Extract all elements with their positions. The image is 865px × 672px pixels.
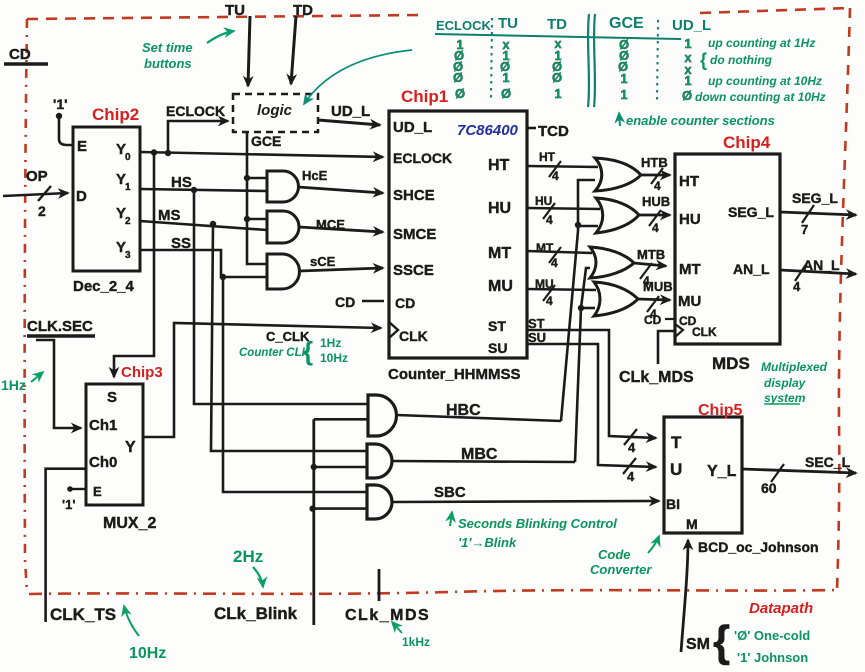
- svg-text:1: 1: [620, 71, 627, 86]
- svg-text:SMCE: SMCE: [393, 226, 436, 243]
- svg-text:3: 3: [125, 250, 131, 261]
- svg-text:1Hz: 1Hz: [1, 377, 26, 393]
- svg-text:HUB: HUB: [642, 194, 670, 209]
- svg-text:4: 4: [652, 221, 659, 235]
- svg-text:CLK: CLK: [692, 325, 717, 339]
- junction MUB input: [578, 305, 584, 311]
- svg-text:2: 2: [38, 203, 46, 219]
- wire Y0 drop to MUX S: [114, 152, 154, 377]
- svg-text:display: display: [764, 376, 807, 390]
- svg-text:Converter: Converter: [590, 562, 652, 577]
- svg-text:MT: MT: [488, 245, 511, 262]
- svg-text:GCE: GCE: [251, 133, 281, 149]
- svg-text:ST: ST: [528, 316, 545, 331]
- svg-text:HT: HT: [488, 157, 510, 174]
- svg-text:1: 1: [684, 73, 691, 88]
- truth table column ECLOCK values: [453, 37, 465, 101]
- junction HUB input: [575, 222, 581, 228]
- wire MCE to Chip1 SMCE: [299, 227, 383, 232]
- multiplexer U-chip3 MUX_2: [86, 384, 143, 505]
- border left dash-dot: [25, 19, 27, 592]
- svg-text:Ch1: Ch1: [89, 417, 117, 434]
- svg-text:Chip5: Chip5: [698, 402, 743, 419]
- svg-text:GCE: GCE: [609, 15, 644, 32]
- wire SU to Chip5 U: [527, 344, 656, 467]
- svg-text:Seconds Blinking Control: Seconds Blinking Control: [458, 516, 617, 531]
- svg-text:Counter_HHMMSS: Counter_HHMMSS: [388, 366, 521, 383]
- svg-text:0: 0: [125, 152, 131, 163]
- svg-text:7: 7: [801, 222, 808, 237]
- svg-text:BCD_oc_Johnson: BCD_oc_Johnson: [698, 539, 819, 555]
- svg-text:MT: MT: [536, 241, 554, 255]
- svg-text:10Hz: 10Hz: [320, 351, 348, 365]
- note Seconds Blinking Control: [450, 512, 452, 526]
- wire SEG_L output: [780, 212, 856, 215]
- junction CLK_Blink to SBC: [309, 505, 315, 511]
- svg-text:MU: MU: [678, 293, 701, 310]
- svg-text:MUB: MUB: [643, 279, 673, 294]
- svg-text:CLK_TS: CLK_TS: [50, 605, 116, 624]
- svg-text:ECLOCK: ECLOCK: [436, 18, 492, 33]
- svg-text:HT: HT: [539, 150, 556, 164]
- and-gate MBC: [367, 444, 392, 478]
- svg-text:enable counter sections: enable counter sections: [626, 113, 775, 128]
- logic block dashed: [233, 94, 318, 132]
- svg-text:M: M: [686, 516, 698, 532]
- svg-text:Y_L: Y_L: [707, 463, 737, 480]
- and-gate SCE: [267, 254, 300, 289]
- svg-text:UD_L: UD_L: [331, 103, 370, 120]
- junction MS drop: [210, 221, 216, 227]
- pin CLK triangle chip1: [389, 322, 398, 338]
- svg-text:4: 4: [546, 294, 553, 308]
- wire SS drop to SBC gate: [223, 277, 367, 492]
- counter U-chip1 Counter_HHMMSS: [389, 111, 527, 358]
- svg-text:logic: logic: [257, 102, 293, 119]
- wire CD stub chip1: [362, 300, 384, 303]
- svg-text:CLK: CLK: [399, 328, 428, 344]
- svg-text:1Hz: 1Hz: [320, 336, 341, 350]
- svg-text:AN_L: AN_L: [733, 261, 770, 277]
- svg-text:SEG_L: SEG_L: [728, 204, 774, 220]
- svg-text:ECLOCK: ECLOCK: [166, 103, 225, 119]
- svg-text:HU: HU: [679, 211, 701, 228]
- svg-text:Ø: Ø: [455, 86, 465, 101]
- svg-text:E: E: [77, 138, 87, 155]
- bus slash OP 2: [38, 186, 51, 201]
- junction on Y0 for ECLOCK riser: [165, 150, 171, 156]
- svg-text:U: U: [670, 460, 682, 479]
- svg-text:HS: HS: [171, 174, 192, 191]
- svg-text:Ø: Ø: [501, 86, 511, 101]
- svg-text:up counting at 1Hz: up counting at 1Hz: [708, 36, 815, 50]
- svg-text:4: 4: [552, 169, 559, 183]
- svg-text:10Hz: 10Hz: [129, 645, 166, 662]
- arrow table to logic: [304, 50, 412, 104]
- svg-text:1: 1: [125, 182, 131, 193]
- pin CLK triangle chip4: [675, 324, 683, 337]
- svg-text:MTB: MTB: [637, 247, 665, 262]
- svg-text:S: S: [107, 389, 117, 406]
- svg-text:MU: MU: [488, 278, 513, 295]
- svg-text:CLk_MDS: CLk_MDS: [619, 369, 694, 386]
- svg-text:system: system: [764, 391, 806, 405]
- svg-text:1: 1: [554, 86, 561, 101]
- svg-text:4: 4: [546, 213, 553, 227]
- svg-text:TU: TU: [225, 2, 245, 19]
- wire MBC riser to MTB MUB gates: [575, 268, 590, 462]
- svg-text:HcE: HcE: [302, 168, 328, 183]
- and-gate HCE: [267, 171, 299, 202]
- svg-text:{: {: [303, 336, 313, 366]
- wire HU bus to HUB gate: [527, 208, 600, 209]
- svg-text:do nothing: do nothing: [710, 53, 773, 67]
- svg-text:MS: MS: [158, 207, 181, 224]
- svg-text:'1'→Blink: '1'→Blink: [458, 535, 517, 550]
- svg-text:4: 4: [654, 179, 661, 193]
- svg-text:CLk_Blink: CLk_Blink: [214, 604, 298, 623]
- junction SS drop: [220, 274, 226, 280]
- svg-text:BI: BI: [666, 496, 680, 512]
- wire CLK_Blink to SBC gate: [313, 507, 367, 510]
- wire MU bus to MUB gate: [527, 289, 596, 290]
- svg-text:Chip3: Chip3: [121, 364, 163, 381]
- wire SS (Y3) to SCE gate: [140, 250, 267, 277]
- node CLK_MDS bottom tick: [378, 569, 381, 601]
- wire SEC_L output: [742, 469, 856, 473]
- wire HBC output to riser: [397, 415, 562, 421]
- wire CLK_SEC to MUX Ch1: [36, 340, 81, 428]
- svg-text:4: 4: [628, 440, 636, 455]
- svg-text:SHCE: SHCE: [393, 187, 435, 204]
- wire HCE to Chip1 SHCE: [298, 187, 383, 193]
- svg-text:{: {: [700, 50, 707, 70]
- svg-text:4: 4: [551, 256, 558, 270]
- svg-text:7C86400: 7C86400: [457, 122, 519, 139]
- svg-text:SBC: SBC: [434, 484, 466, 501]
- wire CLK_MDS to chip4 clk: [658, 331, 675, 364]
- wire CLK_Blink to HBC gate: [314, 418, 368, 421]
- svg-text:Y: Y: [125, 439, 136, 456]
- svg-text:TU: TU: [498, 15, 518, 32]
- wire CD stub chip4: [665, 318, 674, 320]
- svg-text:Datapath: Datapath: [749, 600, 813, 617]
- svg-text:TCD: TCD: [538, 123, 569, 140]
- truth table column TU values: [500, 37, 511, 101]
- wire TU to logic: [248, 16, 250, 86]
- wire GCE stub to HCE gate: [247, 177, 267, 180]
- svg-text:CD: CD: [395, 295, 415, 311]
- svg-text:HT: HT: [679, 173, 699, 190]
- truth table column GCE values: [618, 37, 629, 102]
- svg-text:'Ø' One-cold: 'Ø' One-cold: [734, 628, 810, 643]
- svg-text:2Hz: 2Hz: [233, 547, 263, 566]
- svg-text:Multiplexed: Multiplexed: [761, 360, 828, 374]
- svg-text:Chip4: Chip4: [723, 133, 771, 152]
- svg-text:SEC_L: SEC_L: [805, 454, 851, 470]
- svg-text:Ø: Ø: [453, 70, 463, 85]
- svg-text:'1': '1': [53, 96, 67, 112]
- svg-text:HBC: HBC: [446, 402, 481, 419]
- svg-text:D: D: [76, 188, 87, 205]
- wire GCE stub to MCE gate: [247, 218, 267, 221]
- svg-text:MUX_2: MUX_2: [103, 515, 156, 532]
- svg-text:1kHz: 1kHz: [402, 635, 430, 649]
- wire Y0 to Chip1 ECLOCK: [140, 152, 383, 157]
- svg-text:4: 4: [793, 279, 801, 294]
- wire CLK_TS to MUX Ch0: [46, 469, 86, 622]
- or-gate HTB: [595, 158, 641, 191]
- svg-text:Code: Code: [598, 547, 631, 562]
- truth table double bar: [588, 14, 595, 107]
- wire '1' to MUX E: [70, 488, 86, 490]
- svg-text:down counting at 10Hz: down counting at 10Hz: [695, 90, 826, 104]
- svg-text:E: E: [93, 484, 102, 499]
- wire MBC output to riser: [392, 461, 575, 462]
- svg-text:CLK.SEC: CLK.SEC: [27, 318, 93, 335]
- svg-text:up counting at 10Hz: up counting at 10Hz: [708, 74, 822, 88]
- border top dashed: [27, 8, 850, 19]
- or-gate HUB: [596, 198, 639, 233]
- svg-text:MCE: MCE: [316, 217, 345, 232]
- svg-text:HU: HU: [535, 194, 552, 208]
- junction GCE to HCE: [244, 175, 250, 181]
- wire MT bus to MTB gate: [527, 251, 592, 253]
- junction HS drop: [191, 187, 197, 193]
- svg-text:1: 1: [684, 36, 691, 51]
- svg-text:CLk_MDS: CLk_MDS: [345, 607, 430, 624]
- wire HBC riser to HTB HUB gates: [561, 180, 595, 421]
- wire '1' to E: [59, 116, 73, 145]
- svg-text:SS: SS: [171, 235, 191, 252]
- svg-text:TD: TD: [547, 16, 567, 33]
- wire MTB to Chip4 MT: [634, 263, 666, 266]
- svg-text:CD: CD: [9, 46, 31, 63]
- svg-text:SM: SM: [686, 636, 710, 653]
- wire MS drop to MBC gate: [211, 224, 367, 451]
- wire CLK_Blink to MBC gate: [314, 466, 367, 469]
- svg-text:sCE: sCE: [310, 254, 336, 269]
- svg-text:SU: SU: [528, 330, 546, 345]
- svg-text:HTB: HTB: [641, 155, 668, 170]
- code converter U-chip5 BCD_oc_Johnson: [664, 417, 742, 533]
- svg-text:1: 1: [620, 87, 627, 102]
- svg-text:UD_L: UD_L: [393, 119, 432, 136]
- junction GCE to MCE: [244, 216, 250, 222]
- truth table dotted separator 1: [491, 18, 492, 102]
- svg-text:Set time: Set time: [142, 40, 193, 55]
- svg-text:CD: CD: [335, 294, 355, 310]
- truth table dotted separator 2: [657, 20, 658, 104]
- or-gate MTB: [590, 247, 634, 278]
- svg-text:MT: MT: [679, 261, 701, 278]
- svg-text:2: 2: [125, 216, 131, 227]
- truth table column UD_L values: [682, 36, 692, 103]
- wire HS drop to HBC gate: [194, 190, 368, 404]
- svg-text:MBC: MBC: [461, 446, 498, 463]
- svg-text:T: T: [671, 433, 682, 452]
- wire MUB to Chip4 MU: [638, 299, 670, 300]
- svg-text:AN_L: AN_L: [803, 257, 840, 273]
- wire GCE from logic down to SCE gate: [247, 132, 267, 264]
- and-gate HBC: [368, 395, 397, 436]
- wire AN_L output: [780, 270, 856, 274]
- border bottom dash-dot: [29, 590, 837, 594]
- svg-text:MDS: MDS: [712, 354, 750, 373]
- svg-text:OP: OP: [26, 168, 48, 185]
- junction on Y0 for MUX S drop: [151, 149, 157, 155]
- wire HT bus to HTB gate: [527, 166, 598, 167]
- svg-text:ST: ST: [488, 318, 506, 334]
- svg-text:'1': '1': [62, 497, 75, 512]
- svg-text:Chip2: Chip2: [92, 105, 139, 124]
- wire HS (Y1) to HCE gate: [140, 189, 267, 191]
- svg-text:1: 1: [502, 70, 509, 85]
- decoder U-chip2 Dec_2_4: [73, 127, 140, 271]
- note enable counter sections: [619, 113, 620, 126]
- wire MS (Y2) to MCE gate: [140, 221, 267, 230]
- svg-text:UD_L: UD_L: [672, 17, 711, 34]
- or-gate MUB: [594, 282, 638, 316]
- wire stub to MUB gate: [581, 307, 595, 310]
- svg-text:buttons: buttons: [144, 56, 192, 71]
- and-gate SBC: [367, 485, 392, 519]
- wire UD_L logic to Chip1: [318, 120, 380, 125]
- svg-text:Counter CLK: Counter CLK: [239, 347, 311, 359]
- display driver U-chip4 MDS: [675, 154, 780, 344]
- wire SBC output to Chip5 BI: [392, 501, 659, 502]
- wire ECLOCK riser to logic box: [168, 121, 228, 153]
- svg-text:CD: CD: [644, 313, 662, 327]
- wire OP to D: [3, 193, 68, 196]
- svg-text:60: 60: [761, 480, 777, 496]
- svg-text:SU: SU: [488, 340, 507, 356]
- svg-text:4: 4: [627, 469, 635, 484]
- and-gate MCE: [267, 211, 299, 243]
- svg-text:Ø: Ø: [552, 70, 562, 85]
- svg-text:Ø: Ø: [682, 88, 692, 103]
- wire TD to logic: [291, 16, 296, 84]
- svg-text:Ch0: Ch0: [89, 454, 117, 471]
- svg-text:SSCE: SSCE: [393, 262, 434, 279]
- wire C_CLK from MUX Y to Chip1 CLK: [143, 323, 381, 437]
- junction CLK_Blink to MBC: [311, 464, 317, 470]
- truth table column TD values: [552, 36, 562, 101]
- svg-text:SEG_L: SEG_L: [792, 190, 838, 206]
- wire stub to HUB gate: [578, 225, 598, 228]
- svg-text:Chip1: Chip1: [401, 87, 448, 106]
- truth table header underline: [435, 34, 681, 39]
- wire CLK_Blink vertical: [312, 419, 315, 625]
- wire HTB to Chip4 HT: [641, 174, 670, 177]
- svg-text:ECLOCK: ECLOCK: [393, 150, 452, 166]
- wire ST to Chip5 T: [527, 330, 656, 438]
- svg-text:{: {: [713, 617, 730, 666]
- pin TCD chip1: [527, 127, 536, 130]
- svg-text:Dec_2_4: Dec_2_4: [73, 278, 135, 295]
- wire SM to Chip5 M: [681, 540, 688, 652]
- wire SCE to Chip1 SSCE: [300, 268, 383, 271]
- svg-text:HU: HU: [488, 200, 511, 217]
- svg-text:'1' Johnson: '1' Johnson: [737, 650, 808, 665]
- border right dashed: [837, 8, 850, 590]
- wire HUB to Chip4 HU: [639, 214, 670, 217]
